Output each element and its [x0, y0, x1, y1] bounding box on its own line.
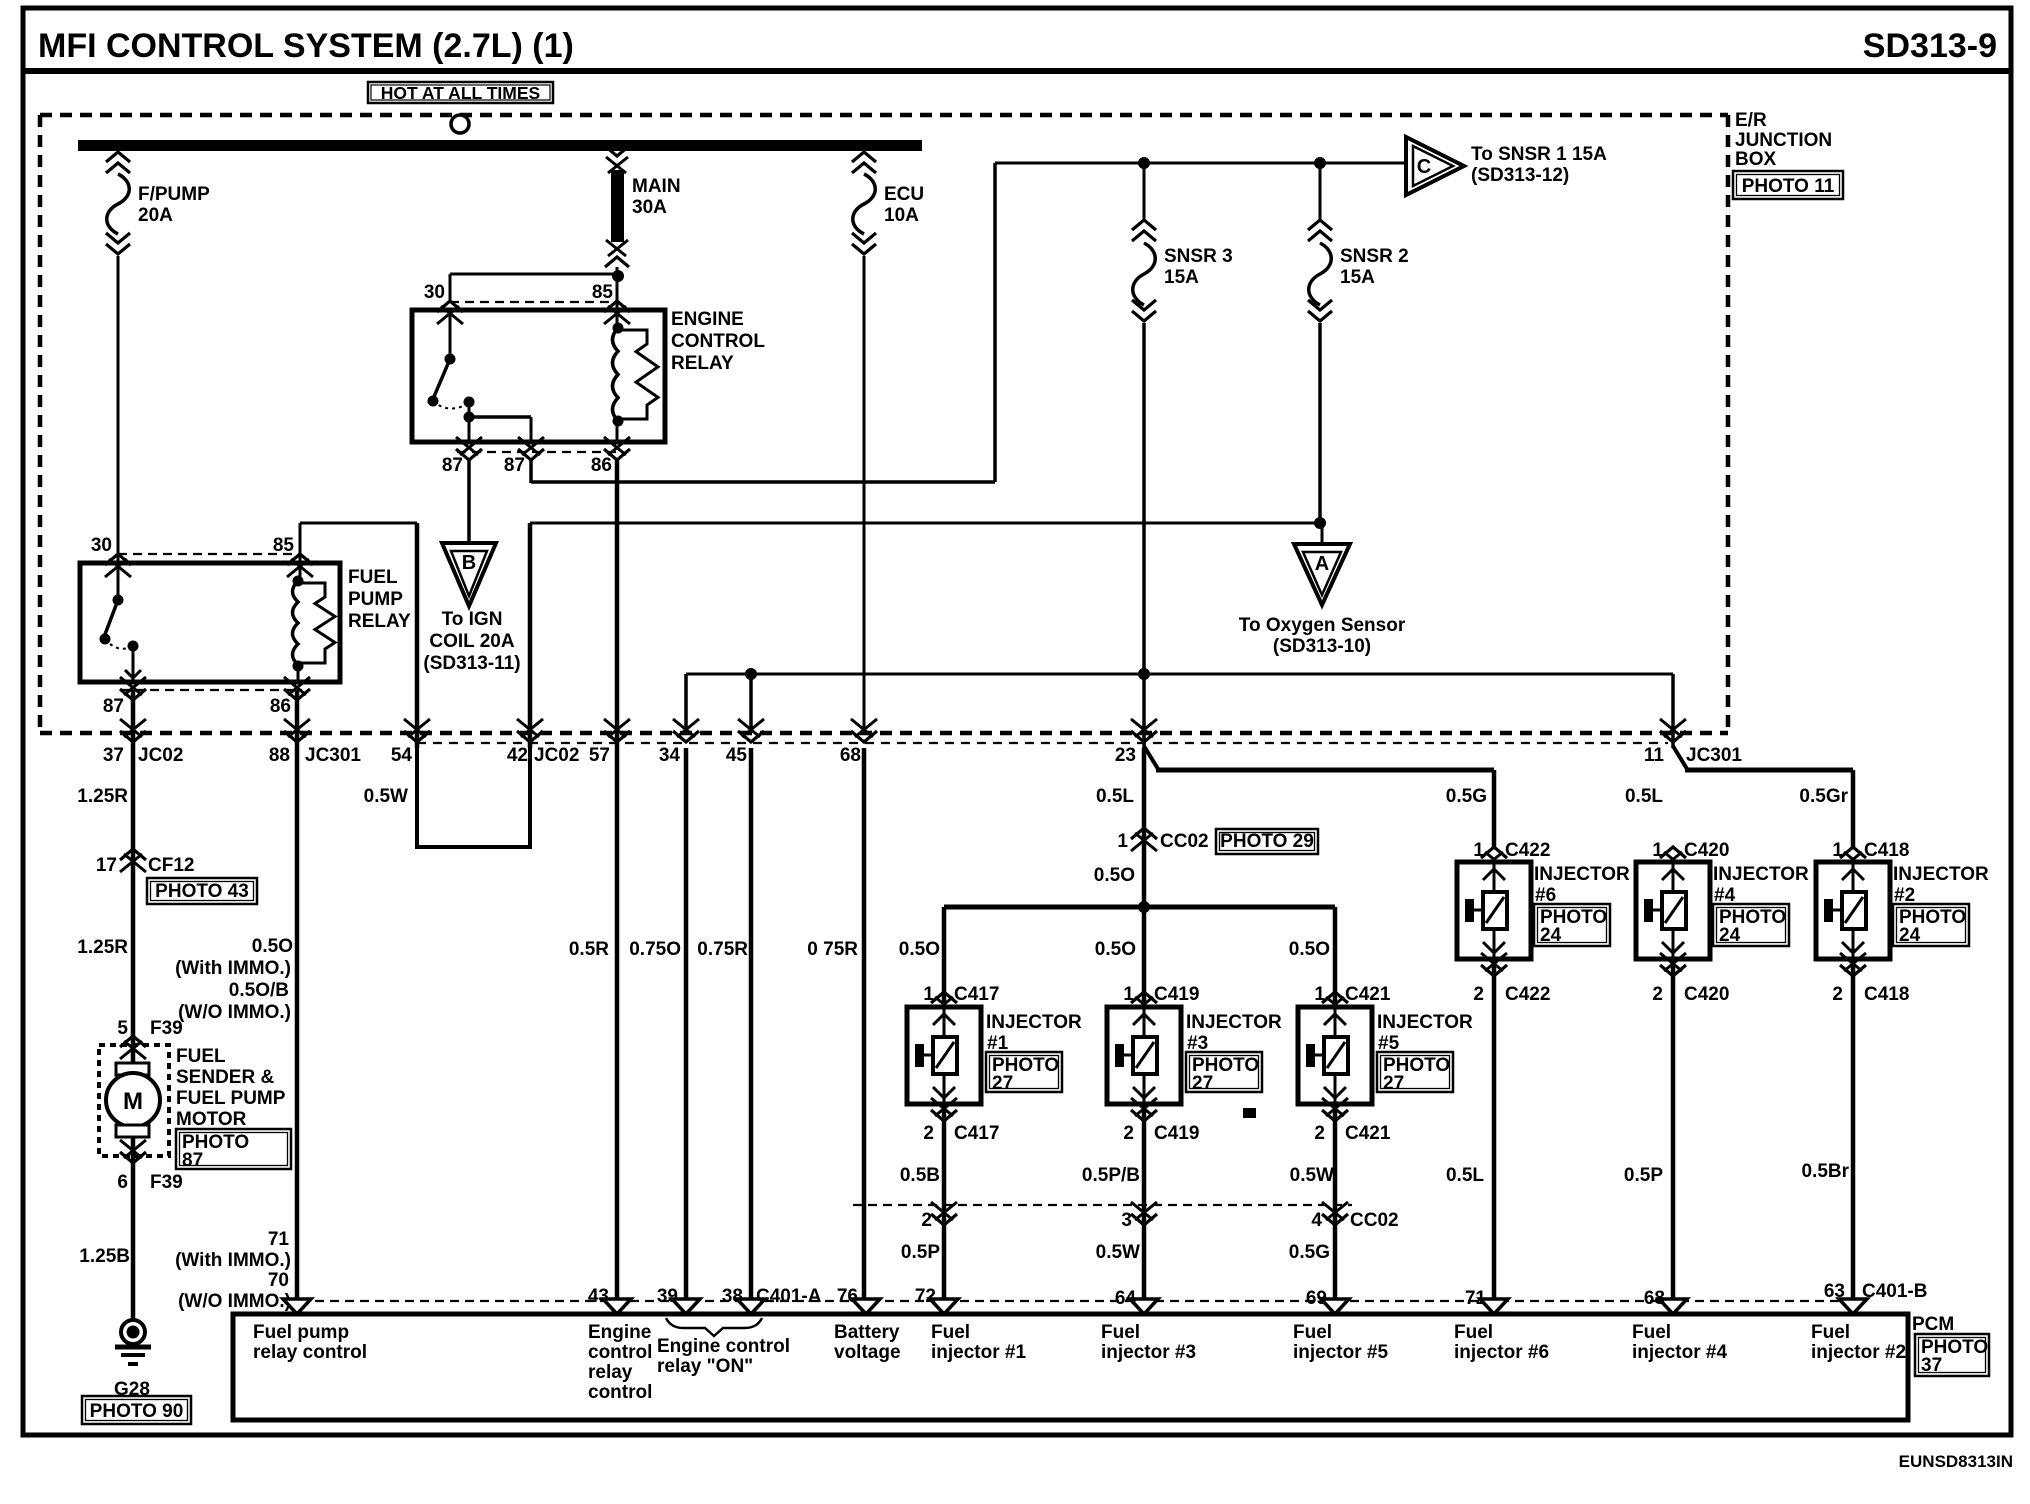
svg-text:86: 86 — [270, 696, 291, 717]
svg-text:70: 70 — [268, 1270, 289, 1291]
svg-text:MFI CONTROL SYSTEM (2.7L) (1): MFI CONTROL SYSTEM (2.7L) (1) — [38, 27, 574, 65]
svg-text:38: 38 — [722, 1286, 743, 1307]
svg-text:relay control: relay control — [253, 1342, 367, 1363]
svg-text:1: 1 — [1314, 984, 1325, 1005]
svg-text:INJECTOR: INJECTOR — [1534, 864, 1630, 885]
svg-text:Fuel: Fuel — [1632, 1322, 1671, 1343]
svg-text:injector #1: injector #1 — [931, 1342, 1026, 1363]
svg-text:57: 57 — [589, 745, 610, 766]
svg-text:85: 85 — [273, 535, 295, 556]
svg-text:C419: C419 — [1154, 984, 1199, 1005]
svg-text:ENGINE: ENGINE — [671, 309, 744, 330]
svg-text:71: 71 — [1465, 1288, 1487, 1309]
svg-text:42: 42 — [507, 745, 528, 766]
svg-text:85: 85 — [592, 282, 614, 303]
svg-text:68: 68 — [840, 745, 861, 766]
svg-text:24: 24 — [1899, 925, 1921, 946]
svg-text:MAIN: MAIN — [632, 176, 681, 197]
svg-text:2: 2 — [1652, 984, 1663, 1005]
svg-text:0.5O: 0.5O — [1289, 939, 1330, 960]
svg-text:PUMP: PUMP — [348, 589, 403, 610]
svg-text:FUEL: FUEL — [348, 567, 398, 588]
svg-text:JUNCTION: JUNCTION — [1735, 130, 1832, 151]
svg-text:Fuel: Fuel — [931, 1322, 970, 1343]
svg-text:INJECTOR: INJECTOR — [1893, 864, 1989, 885]
svg-text:(With IMMO.): (With IMMO.) — [175, 958, 291, 979]
svg-text:87: 87 — [182, 1150, 203, 1171]
svg-text:F39: F39 — [150, 1018, 183, 1039]
svg-text:relay: relay — [588, 1362, 633, 1383]
svg-text:C417: C417 — [954, 1123, 999, 1144]
svg-text:10A: 10A — [884, 205, 919, 226]
svg-text:0.75O: 0.75O — [629, 939, 681, 960]
svg-text:87: 87 — [103, 696, 124, 717]
svg-text:0.5W: 0.5W — [1096, 1242, 1140, 1263]
svg-text:To Oxygen Sensor: To Oxygen Sensor — [1239, 615, 1406, 636]
svg-text:0.5W: 0.5W — [1290, 1165, 1334, 1186]
svg-text:37: 37 — [103, 745, 124, 766]
svg-text:88: 88 — [269, 745, 290, 766]
svg-text:37: 37 — [1921, 1355, 1942, 1376]
svg-text:4: 4 — [1311, 1210, 1322, 1231]
svg-text:INJECTOR: INJECTOR — [1713, 864, 1809, 885]
svg-text:43: 43 — [588, 1286, 609, 1307]
svg-text:1.25B: 1.25B — [79, 1246, 130, 1267]
svg-text:C401-B: C401-B — [1862, 1281, 1927, 1302]
svg-text:CF12: CF12 — [148, 855, 194, 876]
svg-text:0.5O/B: 0.5O/B — [229, 980, 289, 1001]
svg-text:C420: C420 — [1684, 840, 1729, 861]
svg-text:JC301: JC301 — [305, 745, 361, 766]
svg-text:M: M — [123, 1088, 143, 1115]
svg-text:1: 1 — [1832, 840, 1843, 861]
svg-text:relay "ON": relay "ON" — [657, 1356, 753, 1377]
svg-text:27: 27 — [1383, 1073, 1404, 1094]
svg-text:MOTOR: MOTOR — [176, 1109, 247, 1130]
svg-text:2: 2 — [923, 1123, 934, 1144]
svg-text:control: control — [588, 1382, 652, 1403]
svg-text:Fuel: Fuel — [1811, 1322, 1850, 1343]
svg-text:E/R: E/R — [1735, 110, 1767, 131]
svg-text:injector #3: injector #3 — [1101, 1342, 1196, 1363]
svg-text:injector #2: injector #2 — [1811, 1342, 1906, 1363]
svg-text:0.5L: 0.5L — [1446, 1165, 1484, 1186]
svg-text:(With IMMO.): (With IMMO.) — [175, 1250, 291, 1271]
svg-text:71: 71 — [268, 1229, 290, 1250]
svg-text:injector #6: injector #6 — [1454, 1342, 1549, 1363]
svg-text:EUNSD8313IN: EUNSD8313IN — [1899, 1452, 2013, 1471]
svg-text:0.5Br: 0.5Br — [1801, 1161, 1849, 1182]
svg-text:PHOTO 90: PHOTO 90 — [90, 1401, 184, 1422]
svg-text:23: 23 — [1115, 745, 1136, 766]
svg-text:1.25R: 1.25R — [77, 937, 128, 958]
svg-text:FUEL: FUEL — [176, 1046, 226, 1067]
svg-text:PHOTO 29: PHOTO 29 — [1220, 831, 1314, 852]
svg-text:76: 76 — [837, 1286, 858, 1307]
svg-text:injector #4: injector #4 — [1632, 1342, 1727, 1363]
svg-text:1: 1 — [923, 984, 934, 1005]
svg-text:COIL 20A: COIL 20A — [429, 631, 514, 652]
svg-text:0 75R: 0 75R — [807, 939, 858, 960]
svg-text:C419: C419 — [1154, 1123, 1199, 1144]
svg-text:72: 72 — [915, 1286, 936, 1307]
svg-text:JC02: JC02 — [534, 745, 579, 766]
svg-text:(SD313-10): (SD313-10) — [1273, 636, 1371, 657]
svg-text:(W/O IMMO.): (W/O IMMO.) — [178, 1291, 291, 1312]
svg-text:RELAY: RELAY — [348, 611, 411, 632]
svg-text:Fuel pump: Fuel pump — [253, 1322, 349, 1343]
svg-text:0.5B: 0.5B — [900, 1165, 940, 1186]
svg-text:69: 69 — [1306, 1288, 1327, 1309]
svg-text:CONTROL: CONTROL — [671, 331, 765, 352]
svg-text:0.5O: 0.5O — [1095, 939, 1136, 960]
svg-text:C422: C422 — [1505, 984, 1550, 1005]
svg-text:SNSR 3: SNSR 3 — [1164, 246, 1233, 267]
svg-text:C418: C418 — [1864, 840, 1909, 861]
svg-text:injector #5: injector #5 — [1293, 1342, 1388, 1363]
svg-text:C401-A: C401-A — [756, 1286, 822, 1307]
svg-text:30: 30 — [424, 282, 445, 303]
svg-text:C422: C422 — [1505, 840, 1550, 861]
svg-text:A: A — [1315, 553, 1329, 575]
svg-text:SENDER &: SENDER & — [176, 1067, 274, 1088]
svg-text:CC02: CC02 — [1350, 1210, 1399, 1231]
svg-text:0.5P: 0.5P — [901, 1242, 940, 1263]
svg-text:SD313-9: SD313-9 — [1863, 27, 1997, 65]
svg-text:34: 34 — [659, 745, 681, 766]
svg-text:C421: C421 — [1345, 1123, 1391, 1144]
svg-text:63: 63 — [1824, 1281, 1845, 1302]
svg-text:F39: F39 — [150, 1172, 183, 1193]
svg-text:24: 24 — [1540, 925, 1562, 946]
svg-text:INJECTOR: INJECTOR — [1377, 1012, 1473, 1033]
svg-text:0.5Gr: 0.5Gr — [1799, 786, 1848, 807]
svg-text:0.5L: 0.5L — [1096, 786, 1134, 807]
svg-text:HOT AT ALL TIMES: HOT AT ALL TIMES — [381, 83, 540, 103]
svg-text:PHOTO 43: PHOTO 43 — [155, 881, 249, 902]
svg-text:Fuel: Fuel — [1293, 1322, 1332, 1343]
svg-text:0.5G: 0.5G — [1446, 786, 1487, 807]
svg-text:0.5O: 0.5O — [899, 939, 940, 960]
svg-text:0.5P/B: 0.5P/B — [1082, 1165, 1140, 1186]
svg-text:Fuel: Fuel — [1454, 1322, 1493, 1343]
svg-text:Engine: Engine — [588, 1322, 651, 1343]
svg-text:Battery: Battery — [834, 1322, 900, 1343]
svg-text:17: 17 — [96, 855, 117, 876]
svg-text:(SD313-12): (SD313-12) — [1471, 165, 1569, 186]
svg-text:68: 68 — [1644, 1288, 1665, 1309]
svg-text:2: 2 — [1473, 984, 1484, 1005]
svg-text:control: control — [588, 1342, 652, 1363]
svg-text:PCM: PCM — [1912, 1314, 1954, 1335]
svg-text:0.5W: 0.5W — [364, 786, 408, 807]
svg-text:2: 2 — [921, 1210, 932, 1231]
svg-text:2: 2 — [1123, 1123, 1134, 1144]
svg-text:To IGN: To IGN — [442, 609, 503, 630]
svg-text:B: B — [462, 552, 476, 574]
svg-text:1: 1 — [1117, 831, 1128, 852]
svg-text:15A: 15A — [1340, 267, 1375, 288]
svg-text:F/PUMP: F/PUMP — [138, 184, 210, 205]
svg-text:2: 2 — [1314, 1123, 1325, 1144]
svg-text:39: 39 — [657, 1286, 678, 1307]
svg-text:45: 45 — [726, 745, 748, 766]
svg-text:ECU: ECU — [884, 184, 924, 205]
svg-text:6: 6 — [117, 1172, 128, 1193]
svg-text:15A: 15A — [1164, 267, 1199, 288]
svg-text:Engine control: Engine control — [657, 1336, 790, 1357]
svg-text:To SNSR 1 15A: To SNSR 1 15A — [1471, 144, 1607, 165]
svg-text:30: 30 — [91, 535, 112, 556]
svg-text:JC301: JC301 — [1686, 745, 1742, 766]
svg-text:INJECTOR: INJECTOR — [1186, 1012, 1282, 1033]
svg-text:0.5O: 0.5O — [252, 936, 293, 957]
svg-text:64: 64 — [1115, 1288, 1137, 1309]
svg-text:27: 27 — [992, 1073, 1013, 1094]
svg-text:87: 87 — [504, 455, 525, 476]
svg-text:CC02: CC02 — [1160, 831, 1209, 852]
svg-text:2: 2 — [1832, 984, 1843, 1005]
svg-text:0.5L: 0.5L — [1625, 786, 1663, 807]
svg-text:87: 87 — [442, 455, 463, 476]
svg-text:5: 5 — [117, 1018, 128, 1039]
svg-text:C421: C421 — [1345, 984, 1391, 1005]
svg-text:1: 1 — [1652, 840, 1663, 861]
svg-text:20A: 20A — [138, 205, 173, 226]
svg-text:FUEL PUMP: FUEL PUMP — [176, 1088, 286, 1109]
svg-text:INJECTOR: INJECTOR — [986, 1012, 1082, 1033]
svg-text:1.25R: 1.25R — [77, 786, 128, 807]
svg-text:Fuel: Fuel — [1101, 1322, 1140, 1343]
svg-text:(W/O IMMO.): (W/O IMMO.) — [178, 1002, 291, 1023]
svg-text:JC02: JC02 — [138, 745, 183, 766]
svg-text:0.5G: 0.5G — [1289, 1242, 1330, 1263]
svg-text:C: C — [1417, 156, 1431, 178]
svg-text:RELAY: RELAY — [671, 353, 734, 374]
svg-text:24: 24 — [1719, 925, 1741, 946]
svg-text:0.75R: 0.75R — [697, 939, 748, 960]
svg-text:1: 1 — [1123, 984, 1134, 1005]
svg-text:30A: 30A — [632, 197, 667, 218]
svg-text:54: 54 — [391, 745, 413, 766]
svg-text:PHOTO 11: PHOTO 11 — [1742, 176, 1835, 197]
svg-text:(SD313-11): (SD313-11) — [423, 653, 520, 674]
svg-text:0.5P: 0.5P — [1624, 1165, 1663, 1186]
svg-text:3: 3 — [1121, 1210, 1132, 1231]
svg-text:1: 1 — [1473, 840, 1484, 861]
svg-text:86: 86 — [591, 455, 612, 476]
svg-text:27: 27 — [1192, 1073, 1213, 1094]
svg-text:SNSR 2: SNSR 2 — [1340, 246, 1409, 267]
svg-text:voltage: voltage — [834, 1342, 901, 1363]
svg-text:C417: C417 — [954, 984, 999, 1005]
svg-text:BOX: BOX — [1735, 149, 1777, 170]
svg-text:C420: C420 — [1684, 984, 1729, 1005]
svg-text:C418: C418 — [1864, 984, 1909, 1005]
svg-text:0.5R: 0.5R — [569, 939, 609, 960]
svg-text:11: 11 — [1644, 745, 1665, 766]
svg-text:0.5O: 0.5O — [1094, 865, 1135, 886]
